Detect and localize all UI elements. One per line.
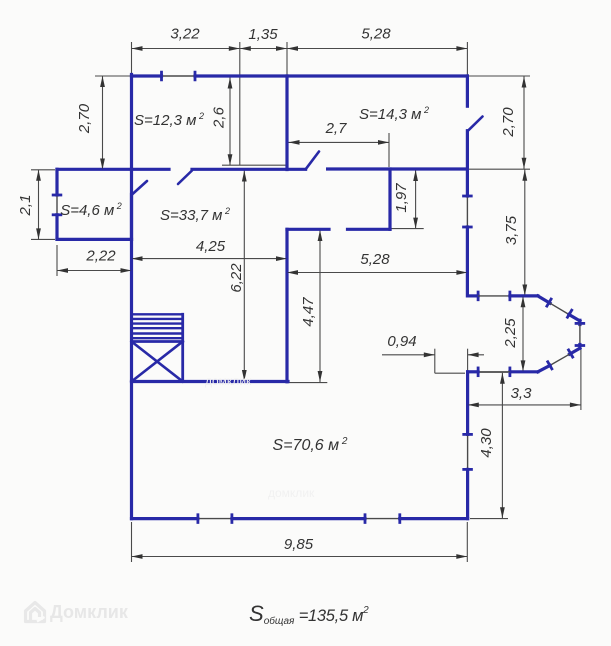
svg-text:S=33,7 м 2: S=33,7 м 2 bbox=[160, 206, 230, 224]
svg-text:домклик: домклик bbox=[205, 374, 252, 388]
mid wall y=169 bbox=[57, 168, 169, 171]
ext lines left 2,70 bbox=[95, 75, 130, 77]
arrows 2,70 left bbox=[100, 76, 105, 87]
bottom wall y=518.6 bbox=[132, 517, 198, 520]
svg-text:S=70,6 м 2: S=70,6 м 2 bbox=[273, 436, 348, 454]
dim line 4,25 bbox=[132, 258, 288, 260]
watermark logo bbox=[26, 603, 45, 622]
svg-text:2,7: 2,7 bbox=[325, 120, 348, 137]
svg-text:2,1: 2,1 bbox=[17, 195, 34, 217]
svg-text:1,97: 1,97 bbox=[393, 183, 410, 213]
svg-text:2,25: 2,25 bbox=[502, 318, 519, 349]
ext lines 4,30 bbox=[470, 371, 508, 373]
right wall lower x=467.6 bbox=[466, 372, 469, 435]
ext line 4,47 bottom bbox=[288, 382, 327, 384]
bay right edge bbox=[578, 320, 581, 324]
dim line 2,25 bbox=[522, 296, 524, 371]
dim line 5,28 lower bbox=[287, 272, 467, 274]
ext line 3,3 right bbox=[580, 348, 582, 410]
arrows 3,75 bbox=[522, 170, 527, 181]
svg-text:S=4,6 м 2: S=4,6 м 2 bbox=[60, 201, 122, 219]
dim line 4,30 bbox=[501, 373, 503, 518]
L-wall y=229.3 bbox=[348, 228, 391, 231]
door leaf right wall bbox=[468, 117, 483, 131]
wall y=229.3 from 287 bbox=[287, 228, 329, 231]
arrows 1,97 bbox=[413, 170, 418, 181]
dim line 4,47 bbox=[319, 230, 321, 382]
small room bottom wall bbox=[57, 238, 132, 241]
dim line 2,1 bbox=[38, 170, 40, 240]
arrows 2,22 bbox=[57, 268, 68, 273]
small room S=4,6 left wall bbox=[55, 169, 58, 195]
ext lines 9,85 bbox=[131, 522, 133, 562]
dim line 3,75 bbox=[524, 169, 526, 295]
arrows top dim bbox=[132, 46, 143, 51]
arrows 2,6 bbox=[228, 78, 233, 89]
svg-text:4,25: 4,25 bbox=[196, 238, 226, 255]
dim 0,94 lines bbox=[382, 354, 435, 356]
dim line 2,70 right bbox=[523, 76, 525, 169]
window right wall lower bbox=[467, 434, 469, 469]
arrows 5,28 lower bbox=[287, 270, 298, 275]
dim line top bbox=[132, 48, 468, 50]
arrows 4,47 bbox=[318, 230, 323, 241]
arrows 4,25 bbox=[132, 256, 143, 261]
svg-text:2,70: 2,70 bbox=[76, 103, 93, 134]
svg-text:9,85: 9,85 bbox=[284, 536, 314, 553]
svg-text:Домклик: Домклик bbox=[50, 602, 129, 622]
svg-text:S=12,3 м 2: S=12,3 м 2 bbox=[134, 111, 204, 129]
dim line 1,97 bbox=[415, 170, 417, 229]
bay bottom diagonal bbox=[570, 348, 580, 354]
svg-text:1,35: 1,35 bbox=[248, 26, 278, 43]
svg-text:5,28: 5,28 bbox=[360, 251, 390, 268]
stairs treads bbox=[132, 313, 183, 315]
svg-text:S=14,3 м 2: S=14,3 м 2 bbox=[359, 105, 429, 123]
window bottom 1 bbox=[198, 518, 232, 520]
dim line 3,3 bbox=[468, 404, 581, 406]
arrows 2,25 bbox=[521, 296, 526, 307]
stairs X box bbox=[132, 340, 183, 343]
arrows 9,85 bbox=[132, 554, 143, 559]
ext line 1,97 bottom bbox=[391, 228, 424, 230]
left wall lower x=131.5 bbox=[130, 169, 133, 239]
arrows 2,70 right bbox=[522, 77, 527, 88]
right wall x=467.4 upper bbox=[466, 76, 469, 106]
svg-text:0,94: 0,94 bbox=[387, 333, 416, 350]
svg-text:2,6: 2,6 bbox=[211, 106, 228, 129]
L-wall x=390 bbox=[388, 169, 391, 229]
svg-text:6,22: 6,22 bbox=[228, 263, 245, 293]
svg-text:3,22: 3,22 bbox=[170, 26, 200, 43]
bay bottom edge bbox=[510, 370, 538, 373]
svg-text:домклик: домклик bbox=[268, 486, 315, 500]
arrows 6,22 bbox=[242, 171, 247, 182]
partition x=287 lower bbox=[285, 229, 288, 381]
left wall upper x=131.5 bbox=[130, 75, 133, 170]
bay top edge bbox=[468, 294, 479, 297]
arrows 3,3 bbox=[468, 403, 479, 408]
extension lines top dims bbox=[131, 42, 133, 75]
shaft bottom thin line bbox=[222, 164, 288, 166]
dim line 2,7 bbox=[289, 141, 390, 143]
svg-text:4,30: 4,30 bbox=[478, 428, 495, 458]
arrows 0,94 bbox=[424, 352, 435, 357]
window top wall bbox=[162, 75, 196, 77]
dim line 2,6 bbox=[229, 77, 231, 165]
ext lines 2,22 bbox=[56, 245, 58, 276]
partition x=287 upper bbox=[285, 76, 288, 170]
window bottom 2 bbox=[365, 518, 400, 520]
svg-text:3,75: 3,75 bbox=[503, 215, 520, 245]
svg-text:2,70: 2,70 bbox=[500, 107, 517, 138]
svg-text:3,3: 3,3 bbox=[511, 385, 533, 402]
ext right top bbox=[469, 75, 530, 77]
ext lines 2,1 bbox=[31, 169, 55, 171]
bay top diagonal bbox=[538, 296, 550, 303]
window small room bbox=[56, 195, 58, 215]
arrows 2,1 bbox=[36, 170, 41, 181]
arrows 2,7 bbox=[289, 140, 300, 145]
svg-text:2,22: 2,22 bbox=[85, 248, 116, 265]
dim line 2,70 left bbox=[102, 76, 104, 170]
dim line 9,85 bbox=[132, 556, 468, 558]
arrows 4,30 bbox=[500, 373, 505, 384]
ext line 2,7 right bbox=[388, 133, 390, 167]
door leaf 1 bbox=[178, 171, 192, 185]
wall y=381.5 bbox=[132, 380, 289, 383]
svg-text:5,28: 5,28 bbox=[361, 26, 391, 43]
door leaf 2 bbox=[306, 152, 319, 170]
dim line 2,22 bbox=[57, 270, 132, 272]
top wall y=76 bbox=[132, 74, 162, 77]
window right wall upper bbox=[466, 196, 468, 227]
door leaf small room bbox=[132, 181, 147, 195]
stairs right edge bbox=[181, 314, 184, 381]
dim line 6,22 bbox=[243, 171, 245, 382]
svg-text:4,47: 4,47 bbox=[300, 297, 317, 327]
